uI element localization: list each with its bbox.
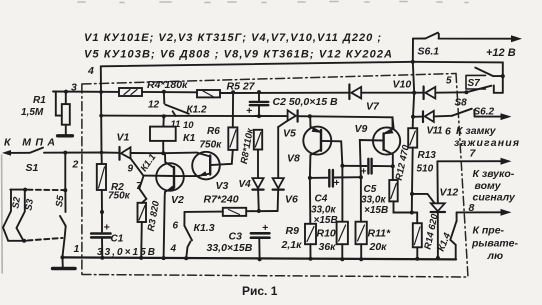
resistor R7: [223, 208, 246, 216]
switch S5: [64, 153, 66, 191]
svg-text:12: 12: [148, 100, 160, 111]
svg-text:R13: R13: [418, 150, 437, 161]
svg-text:R11*: R11*: [368, 228, 391, 240]
switch S1: [30, 148, 43, 153]
svg-text:750к: 750к: [108, 191, 131, 202]
switch S6.1: [412, 39, 414, 62]
node dot V8 emitter: [308, 114, 312, 118]
resistor R11: [356, 222, 367, 245]
svg-text:V10: V10: [393, 79, 412, 91]
svg-text:R9: R9: [286, 225, 300, 237]
node dot S2/S3 bottom: [22, 239, 26, 243]
resistor R3: [138, 203, 147, 222]
svg-text:33,0×15В: 33,0×15В: [207, 242, 253, 254]
svg-text:8: 8: [469, 202, 475, 214]
svg-text:6: 6: [173, 221, 179, 232]
svg-text:V2: V2: [171, 194, 184, 206]
diode V4: [257, 150, 259, 178]
wire breaker output arrow (8): [457, 211, 504, 213]
resistor R13: [408, 128, 417, 147]
node dot V10 junction: [412, 91, 416, 95]
diode V11: [413, 116, 423, 118]
svg-text:R7*240: R7*240: [204, 194, 239, 206]
node dot C4 left: [308, 176, 312, 180]
svg-text:V9: V9: [355, 123, 368, 135]
svg-text:R6: R6: [207, 126, 220, 137]
svg-text:Рис. 1: Рис. 1: [242, 284, 278, 298]
svg-text:вому: вому: [475, 180, 502, 192]
svg-text:V12: V12: [440, 187, 459, 199]
wire V9 base to R11: [360, 177, 362, 222]
node dot S1/S5 junction: [63, 151, 67, 155]
svg-text:10: 10: [183, 120, 194, 131]
node dot V1 anode tap: [100, 151, 104, 155]
diode V6 (zener): [277, 127, 279, 178]
relay contact K1.3: [183, 212, 185, 226]
wire V10/V11 vertical: [413, 93, 415, 129]
scan gutter edge: [1, 155, 4, 273]
switch S2: [10, 189, 26, 191]
resistor R1: [56, 92, 62, 116]
node dot R6 tap: [231, 90, 235, 94]
svg-text:К замку: К замку: [456, 125, 497, 137]
transistor V9: [373, 127, 400, 154]
resistor R10: [337, 222, 348, 245]
svg-text:5: 5: [446, 76, 452, 87]
svg-text:S2: S2: [10, 196, 23, 210]
wire bus A: [53, 92, 466, 94]
svg-text:К1: К1: [183, 132, 195, 144]
svg-text:S1: S1: [26, 162, 39, 174]
svg-text:×15В: ×15В: [364, 205, 388, 216]
enclosure dash-dot boundary: [82, 74, 468, 278]
svg-text:V1: V1: [117, 132, 130, 144]
svg-text:S8: S8: [455, 98, 468, 109]
svg-text:К звуко-: К звуко-: [473, 168, 515, 180]
svg-text:2,1к: 2,1к: [281, 239, 303, 251]
wire left +12 edge: [101, 66, 102, 164]
svg-text:+12 В: +12 В: [486, 47, 516, 59]
node dot bus B left: [99, 114, 103, 118]
relay contact K1.1 (V1 gate line): [131, 158, 144, 176]
wire +12V top rail: [101, 62, 503, 93]
wire dashed mech link top: [28, 189, 65, 191]
switch S6.2: [452, 109, 472, 116]
node dot C5 left / V8 base: [340, 164, 344, 168]
svg-text:R5 27: R5 27: [227, 81, 256, 93]
wire S2/S3 bottom link: [8, 240, 26, 242]
svg-text:9: 9: [128, 164, 134, 175]
thyristor V1: [118, 147, 120, 160]
svg-text:лю: лю: [487, 250, 504, 262]
svg-text:V4: V4: [239, 179, 252, 190]
svg-text:R1: R1: [33, 95, 46, 106]
node dot on R2-C1 wire: [100, 210, 104, 214]
node dot K1 coil tap: [162, 114, 166, 118]
resistor R8: [254, 130, 262, 150]
svg-text:33,0к: 33,0к: [361, 195, 386, 206]
node dot R10 bottom: [340, 257, 344, 261]
svg-text:V1 КУ101Е; V2,V3 КТ315Г;: V1 КУ101Е; V2,V3 КТ315Г; V4,V7,V10,V11 Д…: [84, 32, 381, 44]
svg-text:С3: С3: [229, 231, 243, 243]
svg-text:2: 2: [72, 159, 79, 171]
wire +12 feed to bus A: [413, 62, 414, 93]
svg-text:С2 50,0×15 В: С2 50,0×15 В: [273, 96, 339, 108]
wire bus B: [101, 116, 392, 128]
node dot R11 bottom: [359, 257, 363, 261]
svg-text:К пре-: К пре-: [473, 225, 505, 237]
svg-text:S6.1: S6.1: [418, 46, 440, 58]
capacitor C4: [310, 176, 361, 179]
svg-text:V3: V3: [216, 180, 229, 192]
svg-text:зажигания: зажигания: [454, 137, 519, 149]
thyristor V5: [288, 110, 296, 121]
node dot S6.1 tap: [411, 60, 415, 64]
node dot C4 right / V9 base: [359, 175, 363, 179]
node dot R9 bottom: [309, 257, 313, 261]
svg-text:V8: V8: [287, 153, 300, 165]
resistor R6: [232, 92, 234, 127]
svg-text:+: +: [361, 167, 367, 178]
wire horn output arrow (7): [437, 160, 504, 162]
svg-text:С4: С4: [315, 194, 328, 205]
wire bottom ground bus: [62, 257, 456, 259]
resistor R14: [416, 213, 418, 224]
node dot K1.2 tap: [162, 90, 166, 94]
svg-text:4: 4: [170, 244, 177, 255]
wire V8 base to R10: [341, 166, 343, 222]
svg-text:+: +: [246, 105, 252, 117]
node dot V2 emitter bottom: [162, 256, 166, 260]
transistor V3: [192, 152, 220, 180]
ground chassis bottom: [62, 257, 64, 267]
node dot R14 bottom: [415, 257, 419, 261]
node dot C2 bottom / R8 top: [257, 114, 261, 118]
relay contact K1.2: [163, 92, 165, 104]
svg-text:510: 510: [417, 164, 434, 175]
wire V12 gate: [412, 194, 435, 203]
transistor V8: [303, 127, 331, 155]
switch S8: [466, 86, 491, 93]
transistor V2: [156, 163, 184, 191]
svg-text:33,0к: 33,0к: [311, 205, 336, 216]
node dot gnd left: [60, 255, 64, 259]
node dot C1 bottom: [100, 256, 104, 260]
svg-text:S5: S5: [54, 194, 67, 208]
node dot R1 top: [64, 90, 68, 94]
svg-text:3: 3: [71, 82, 77, 94]
svg-text:S7: S7: [468, 78, 481, 89]
svg-text:×15В: ×15В: [314, 215, 338, 226]
svg-text:V11: V11: [427, 126, 443, 137]
node dot V12 cathode bottom: [436, 256, 440, 260]
svg-text:+: +: [334, 178, 340, 189]
node dot C5 right / V9 collector: [391, 164, 395, 168]
capacitor C2: [258, 92, 260, 101]
svg-text:750к: 750к: [200, 140, 223, 151]
switch S3: [17, 190, 25, 241]
wire dashed mech link bottom: [28, 238, 63, 241]
svg-text:К1.3: К1.3: [194, 222, 215, 234]
svg-text:S3: S3: [23, 198, 36, 212]
node dot S8 junction: [464, 90, 468, 94]
svg-text:рывате-: рывате-: [471, 238, 518, 250]
svg-text:С1: С1: [111, 234, 124, 245]
node dot R3 bottom: [139, 256, 143, 260]
node dot C3/V4 junction: [257, 209, 261, 213]
wire ignition lock output arrow: [474, 110, 504, 117]
node dot K1.3 bottom: [184, 256, 188, 260]
svg-text:сигналу: сигналу: [473, 192, 517, 204]
resistor R5: [197, 90, 220, 97]
wire R7/K1.3 line: [185, 210, 278, 213]
node dot R12/R14 wire: [410, 211, 414, 215]
svg-text:К1.2: К1.2: [187, 105, 207, 116]
node dot C3 bottom: [258, 257, 262, 261]
svg-text:V5: V5: [283, 128, 296, 140]
wire +12V output arrow: [439, 34, 515, 39]
thyristor V12: [436, 161, 438, 203]
diode V10: [423, 87, 425, 100]
svg-text:V5 КУ103В; V6 Д808 ; V8,: V5 КУ103В; V6 Д808 ; V8,V9 КТ361В; V12 К…: [84, 49, 392, 61]
svg-text:1,5М: 1,5М: [21, 107, 44, 118]
svg-text:36к: 36к: [319, 241, 337, 253]
svg-text:+: +: [104, 222, 110, 234]
svg-text:С5: С5: [364, 184, 377, 195]
relay contact K1.4: [456, 212, 458, 221]
capacitor C5: [342, 165, 392, 167]
svg-text:1: 1: [74, 243, 80, 255]
resistor R2: [97, 164, 106, 190]
scan specks top: [78, 2, 468, 3]
svg-text:R10: R10: [317, 228, 336, 240]
wire K1.1 to R3 zigzag: [139, 176, 146, 203]
node dot bus A left: [99, 90, 103, 94]
svg-text:6: 6: [445, 126, 451, 138]
resistor R4: [119, 88, 142, 96]
node dot S2/S3 top: [23, 188, 27, 192]
relay coil K1: [162, 116, 164, 126]
header parts list text: [84, 32, 392, 61]
ground chassis for R1: [58, 134, 73, 137]
switch S7: [466, 75, 486, 89]
svg-text:R4*180к: R4*180к: [147, 79, 188, 91]
node dot R13/V12 gate: [410, 192, 414, 196]
wire S1 line / МПА input: [6, 152, 120, 154]
svg-text:20к: 20к: [369, 241, 388, 253]
svg-text:4: 4: [87, 65, 94, 77]
diode V7: [348, 85, 350, 100]
node dot K1-coil/V2/V3 collector node: [161, 151, 165, 155]
node dot C2 tap: [257, 90, 261, 94]
resistor R9: [305, 224, 316, 244]
resistor R12: [392, 166, 394, 180]
node dot V11 junction: [411, 115, 415, 119]
svg-text:V6: V6: [285, 194, 298, 206]
svg-text:V7: V7: [366, 101, 380, 113]
